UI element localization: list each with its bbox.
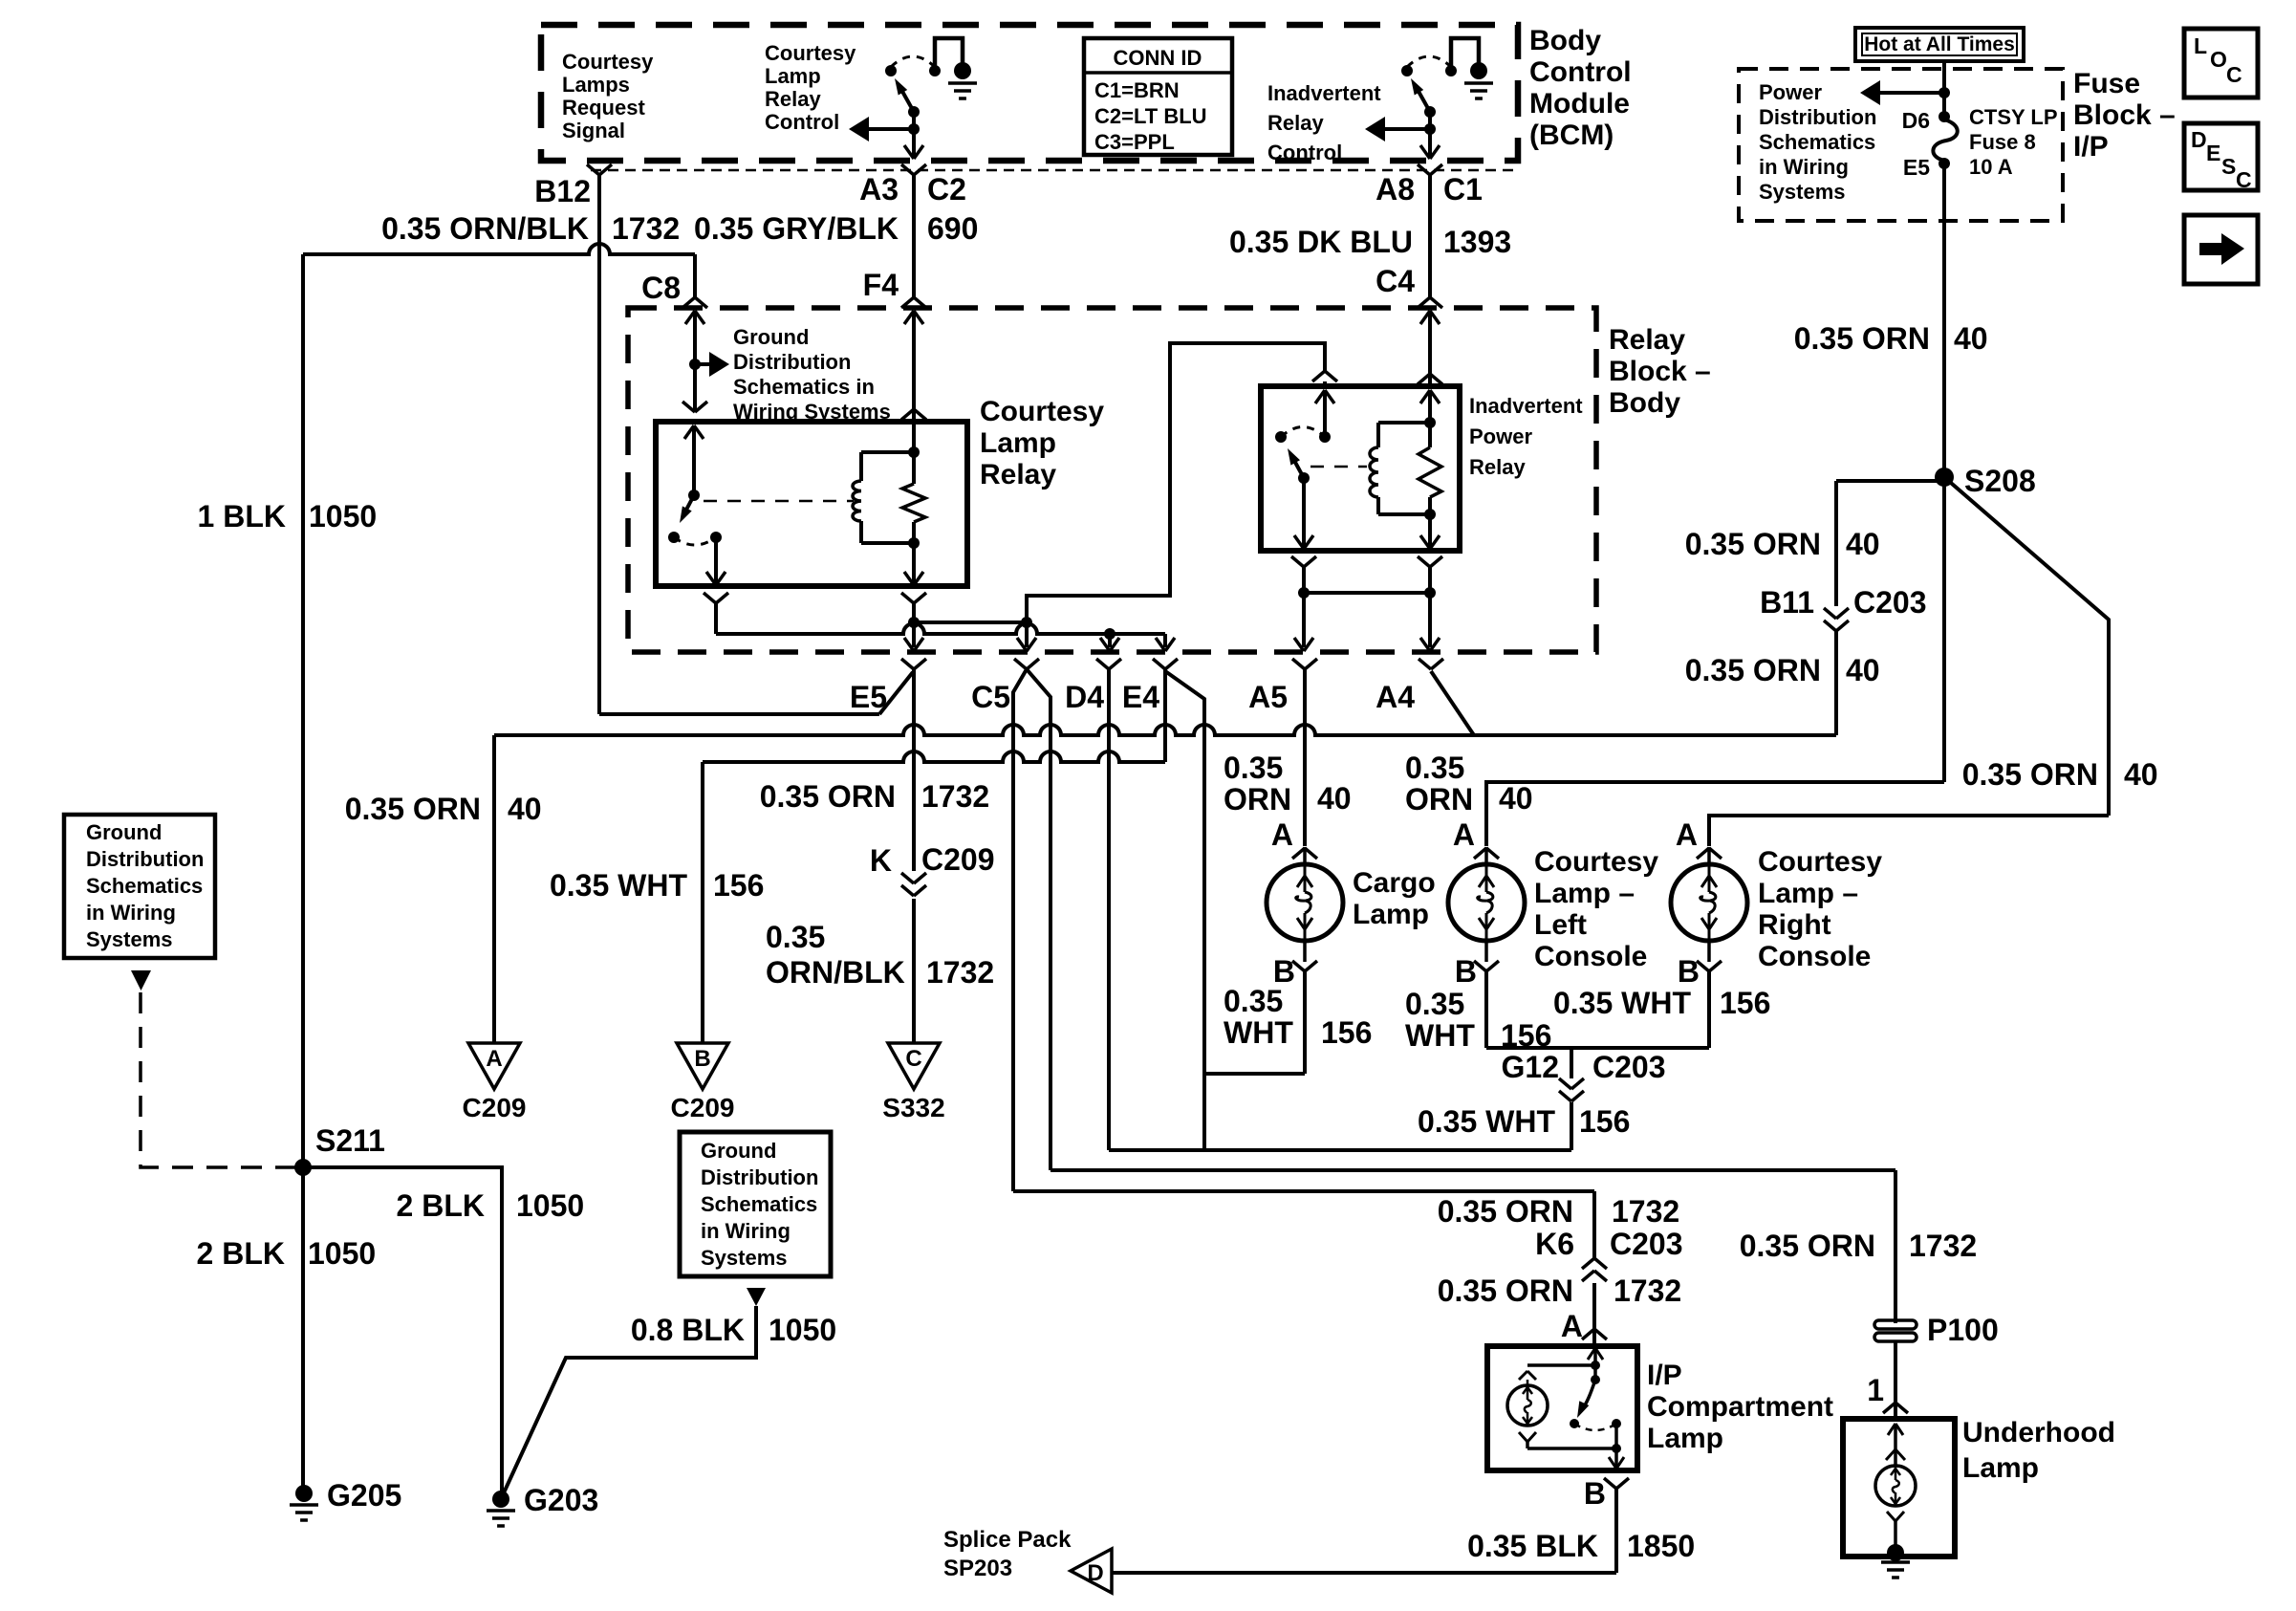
Underhood Lamp box xyxy=(1843,1419,1955,1557)
cargo lamp feed from A5 xyxy=(1303,669,1307,846)
wire label 0.35 ORN 40 (right console feed) xyxy=(1962,757,2158,792)
svg-text:Module: Module xyxy=(1529,88,1630,120)
Body Control Module (BCM) dashed box xyxy=(541,25,1518,161)
courtesy relay actuation dashed link xyxy=(704,500,854,503)
Underhood Lamp title xyxy=(1962,1417,2115,1484)
wire label 0.35 ORN/BLK 1732 xyxy=(381,211,680,246)
svg-text:Compartment: Compartment xyxy=(1647,1391,1833,1423)
svg-text:Power: Power xyxy=(1469,425,1532,448)
arrow under middle ground box xyxy=(747,1288,766,1306)
svg-text:A: A xyxy=(1561,1309,1583,1343)
svg-text:40: 40 xyxy=(1954,321,1988,356)
wire K6 to I/P lamp A xyxy=(1592,1283,1596,1346)
inadvertent relay coil xyxy=(1370,390,1440,520)
Body Control Module (BCM) title xyxy=(1529,25,1632,151)
svg-text:0.35: 0.35 xyxy=(1405,751,1464,785)
svg-text:B: B xyxy=(1678,954,1700,989)
svg-text:Inadvertent: Inadvertent xyxy=(1267,81,1381,105)
svg-text:Lamp: Lamp xyxy=(1647,1423,1723,1454)
svg-text:0.35: 0.35 xyxy=(1224,984,1283,1018)
svg-text:Right: Right xyxy=(1758,909,1831,941)
svg-text:1732: 1732 xyxy=(1612,1194,1679,1229)
svg-text:C5: C5 xyxy=(971,680,1010,714)
pin B (left console lamp) xyxy=(1455,954,1499,989)
wire A3/C2 to F4 xyxy=(912,175,916,297)
svg-text:Relay: Relay xyxy=(1267,111,1324,135)
svg-text:Schematics in: Schematics in xyxy=(733,375,875,399)
wire P100 to underhood lamp xyxy=(1894,1341,1897,1419)
underhood lamp ground xyxy=(1881,1544,1910,1578)
svg-text:40: 40 xyxy=(1846,653,1880,687)
wire to underhood lamp run xyxy=(1051,1170,1895,1323)
BCM label: Courtesy Lamp Relay Control xyxy=(765,41,856,134)
svg-text:Ground: Ground xyxy=(701,1139,776,1163)
svg-text:Courtesy: Courtesy xyxy=(562,50,654,74)
svg-text:Underhood: Underhood xyxy=(1962,1417,2115,1448)
courtesy lamp right console label xyxy=(1758,846,1882,972)
svg-text:Cargo: Cargo xyxy=(1353,867,1436,899)
svg-text:D6: D6 xyxy=(1902,108,1930,133)
svg-text:A: A xyxy=(486,1046,502,1072)
pin A8 xyxy=(1375,164,1442,207)
pin E4 (relay block) xyxy=(1122,659,1178,714)
svg-text:F4: F4 xyxy=(863,268,899,302)
svg-text:A: A xyxy=(1453,817,1475,852)
svg-text:156: 156 xyxy=(1720,986,1770,1020)
svg-text:A8: A8 xyxy=(1375,172,1415,207)
BCM connector face (thin dashed line) xyxy=(591,169,1520,172)
Hot at All Times box xyxy=(1855,28,2024,61)
wire S208 down to left console feed xyxy=(1942,477,1946,782)
BCM inadvertent relay control switch xyxy=(1365,38,1493,159)
svg-text:0.35 ORN: 0.35 ORN xyxy=(1962,757,2098,792)
svg-text:Fuse 8: Fuse 8 xyxy=(1969,130,2036,154)
svg-text:S: S xyxy=(2221,154,2236,179)
courtesy lamp left console label xyxy=(1534,846,1658,972)
wire label 0.35 WHT 156 (left console) xyxy=(1405,987,1551,1053)
svg-text:0.35 ORN: 0.35 ORN xyxy=(1740,1229,1875,1263)
svg-text:2 BLK: 2 BLK xyxy=(197,1236,285,1271)
svg-text:Splice Pack: Splice Pack xyxy=(943,1527,1072,1553)
svg-text:E4: E4 xyxy=(1122,680,1159,714)
switched output run to D4 and E4 xyxy=(716,623,1175,651)
svg-text:B: B xyxy=(694,1046,710,1072)
svg-text:A5: A5 xyxy=(1248,680,1288,714)
svg-text:Courtesy: Courtesy xyxy=(765,41,856,65)
wire label 0.35 ORN 40 (A C209) xyxy=(345,792,542,826)
svg-text:1732: 1732 xyxy=(1614,1274,1681,1308)
svg-text:CONN ID: CONN ID xyxy=(1114,46,1202,70)
Inadvertent Power Relay title xyxy=(1469,394,1583,479)
pin A5 (relay block) xyxy=(1248,659,1317,714)
svg-text:L: L xyxy=(2194,33,2207,58)
pin B12 xyxy=(534,164,612,208)
BCM label: Courtesy Lamps Request Signal xyxy=(562,50,654,142)
svg-text:C8: C8 xyxy=(641,271,681,305)
svg-text:Body: Body xyxy=(1609,387,1680,419)
svg-text:C3=PPL: C3=PPL xyxy=(1094,130,1175,154)
wire label 0.35 ORN 40 (left console feed) xyxy=(1405,751,1533,816)
svg-text:0.35 ORN: 0.35 ORN xyxy=(1438,1194,1573,1229)
svg-text:Block –: Block – xyxy=(2073,99,2176,131)
svg-text:2 BLK: 2 BLK xyxy=(397,1188,485,1223)
connector B C209 xyxy=(671,1043,735,1122)
pin C8 xyxy=(641,271,707,308)
svg-text:(BCM): (BCM) xyxy=(1529,120,1614,151)
relay block label: Ground Distribution Schematics in Wiring Systems xyxy=(733,325,891,424)
BCM label: Inadvertent Relay Control xyxy=(1267,81,1381,164)
svg-text:C2=LT BLU: C2=LT BLU xyxy=(1094,104,1207,128)
WHT 156 horizontal run xyxy=(1109,1148,1571,1152)
svg-text:D: D xyxy=(1087,1560,1103,1586)
svg-text:40: 40 xyxy=(508,792,542,826)
hop line B12 top xyxy=(303,244,695,297)
svg-text:1850: 1850 xyxy=(1627,1529,1695,1563)
svg-text:SP203: SP203 xyxy=(943,1556,1012,1581)
svg-text:Control: Control xyxy=(765,110,839,134)
cargo lamp B wire xyxy=(1204,971,1305,1074)
svg-text:10 A: 10 A xyxy=(1969,155,2013,179)
svg-text:Hot at All Times: Hot at All Times xyxy=(1864,33,2015,55)
svg-text:1732: 1732 xyxy=(921,779,989,814)
svg-text:G205: G205 xyxy=(327,1478,401,1513)
svg-text:G12: G12 xyxy=(1502,1050,1559,1084)
inadvertent relay dashed link xyxy=(1310,466,1367,468)
console B join and G12 xyxy=(1486,1048,1709,1078)
svg-text:S208: S208 xyxy=(1964,464,2036,498)
wire fuse E5 down to S208 xyxy=(1942,163,1946,477)
pin A (right console lamp) xyxy=(1676,817,1722,859)
svg-text:Ground: Ground xyxy=(733,325,809,349)
svg-text:0.35 ORN: 0.35 ORN xyxy=(1685,653,1821,687)
next-page arrow box xyxy=(2184,215,2258,284)
svg-text:C209: C209 xyxy=(463,1093,527,1122)
wire label 1 BLK 1050 xyxy=(198,499,378,533)
pin D4 (relay block) xyxy=(1065,659,1121,714)
wire S211 to G205 xyxy=(301,1167,305,1493)
svg-text:Signal: Signal xyxy=(562,119,625,142)
wire S208 diagonal to right column xyxy=(1944,477,2109,816)
LOC box xyxy=(2184,29,2258,98)
wire label 2 BLK 1050 (G203) xyxy=(397,1188,585,1223)
svg-text:B11: B11 xyxy=(1760,585,1814,620)
wire courtesy relay coil low side xyxy=(901,593,926,651)
svg-text:Courtesy: Courtesy xyxy=(980,396,1104,427)
wire courtesy relay switch out to D4/E4 run xyxy=(704,593,728,634)
svg-text:0.35 ORN: 0.35 ORN xyxy=(345,792,481,826)
I/P Compartment Lamp box xyxy=(1487,1346,1637,1470)
inadvertent relay switch xyxy=(1275,371,1337,551)
svg-text:Control: Control xyxy=(1529,56,1632,88)
svg-text:0.35 WHT: 0.35 WHT xyxy=(1553,986,1691,1020)
pin A (left console lamp) xyxy=(1453,817,1499,859)
BCM courtesy lamp relay control switch xyxy=(849,38,977,159)
wire D4 down to WHT junction xyxy=(1107,669,1111,1150)
wire label 0.35 BLK 1850 xyxy=(1467,1529,1695,1563)
svg-text:Power: Power xyxy=(1759,80,1822,104)
wire A4 diagonal join xyxy=(1431,671,1836,735)
wire A8/C1 to C4 xyxy=(1428,175,1432,297)
wire E4 diagonal branch down xyxy=(1165,671,1204,1150)
cargo lamp label xyxy=(1353,867,1436,930)
svg-text:C1: C1 xyxy=(1443,172,1483,207)
wire F4 into courtesy relay xyxy=(901,311,926,422)
svg-text:0.35 DK BLU: 0.35 DK BLU xyxy=(1229,225,1413,259)
CONN ID table xyxy=(1084,38,1232,155)
pin C4 xyxy=(1375,264,1442,308)
wire label 0.35 ORN 40 (below B11) xyxy=(1685,653,1880,687)
svg-text:WHT: WHT xyxy=(1224,1015,1293,1050)
grommet P100 xyxy=(1874,1313,1999,1347)
svg-text:Lamp: Lamp xyxy=(1353,899,1429,930)
svg-text:Schematics: Schematics xyxy=(86,874,203,898)
wire label 0.35 WHT 156 (right console) xyxy=(1553,986,1770,1020)
svg-text:Distribution: Distribution xyxy=(701,1165,818,1189)
wire label 2 BLK 1050 (G205) xyxy=(197,1236,377,1271)
svg-text:Lamp: Lamp xyxy=(1962,1452,2039,1484)
svg-text:1050: 1050 xyxy=(769,1313,836,1347)
svg-text:C: C xyxy=(2226,62,2242,87)
I/P Compartment Lamp title xyxy=(1647,1360,1833,1454)
svg-text:0.35 GRY/BLK: 0.35 GRY/BLK xyxy=(694,211,899,246)
wire to courtesy lamp left console A xyxy=(1486,782,1944,846)
wire G12 down to WHT run xyxy=(1570,1102,1573,1150)
wire from Hot at All Times to fuse xyxy=(1942,61,1946,117)
svg-text:1050: 1050 xyxy=(516,1188,584,1223)
arrow under left ground box xyxy=(131,970,151,991)
pin E5 (relay block) xyxy=(850,659,926,714)
svg-text:Courtesy: Courtesy xyxy=(1534,846,1658,878)
svg-text:0.35 WHT: 0.35 WHT xyxy=(550,868,687,903)
svg-text:CTSY LP: CTSY LP xyxy=(1969,105,2058,129)
svg-text:C4: C4 xyxy=(1375,264,1415,298)
svg-text:Control: Control xyxy=(1267,141,1342,164)
svg-text:in Wiring: in Wiring xyxy=(701,1219,791,1243)
left console B wire xyxy=(1484,971,1488,1048)
svg-text:C203: C203 xyxy=(1592,1050,1666,1084)
inadvertent relay outputs join xyxy=(1291,556,1442,651)
svg-text:Distribution: Distribution xyxy=(733,350,851,374)
svg-text:Left: Left xyxy=(1534,909,1587,941)
svg-text:1393: 1393 xyxy=(1443,225,1511,259)
ORN 40 horizontal run xyxy=(494,725,1474,735)
wire label 0.35 ORN 40 (cargo) xyxy=(1224,751,1352,816)
svg-text:Relay: Relay xyxy=(1609,324,1685,356)
svg-text:Lamp: Lamp xyxy=(980,427,1056,459)
arrow to power distribution xyxy=(1860,80,1950,105)
wire label 0.35 DK BLU 1393 xyxy=(1229,225,1511,259)
svg-text:40: 40 xyxy=(1846,527,1880,561)
I/P lamp B wire xyxy=(1112,1489,1616,1573)
pin F4 xyxy=(863,268,926,308)
svg-text:Relay: Relay xyxy=(980,459,1056,490)
svg-text:Fuse: Fuse xyxy=(2073,68,2140,99)
wire ground bus top xyxy=(301,254,305,1167)
svg-text:A: A xyxy=(1271,817,1293,852)
svg-text:A4: A4 xyxy=(1375,680,1415,714)
svg-text:40: 40 xyxy=(1499,781,1533,816)
wire C4 into inadvertent relay xyxy=(1418,311,1442,386)
svg-text:ORN: ORN xyxy=(1405,782,1473,816)
wire label 0.35 WHT 156 (cargo) xyxy=(1224,984,1372,1050)
wire label 0.35 ORN 1732 (underhood) xyxy=(1740,1229,1977,1263)
svg-text:0.8 BLK: 0.8 BLK xyxy=(631,1313,745,1347)
right console B wire xyxy=(1707,971,1711,1048)
svg-text:O: O xyxy=(2210,47,2227,72)
inadvertent relay resistor xyxy=(1419,423,1441,551)
Relay Block - Body dashed box xyxy=(628,308,1596,652)
Fuse Block - I/P title xyxy=(2073,68,2176,163)
splice S208 xyxy=(1935,464,2036,498)
svg-text:C203: C203 xyxy=(1610,1227,1683,1261)
svg-text:C1=BRN: C1=BRN xyxy=(1094,78,1180,102)
fuse CTSY LP Fuse 8 10A xyxy=(1902,105,2058,180)
svg-text:Block –: Block – xyxy=(1609,356,1711,387)
wire label 0.8 BLK 1050 xyxy=(631,1313,836,1347)
svg-text:0.35 ORN/BLK: 0.35 ORN/BLK xyxy=(381,211,589,246)
wire label 0.35 ORN 1732 (A) xyxy=(1438,1274,1681,1308)
svg-text:1732: 1732 xyxy=(1909,1229,1977,1263)
svg-text:Body: Body xyxy=(1529,25,1601,56)
Inadvertent Power Relay box xyxy=(1261,386,1460,551)
svg-text:1: 1 xyxy=(1867,1373,1884,1407)
wire label 0.35 ORN 1732 (E5) xyxy=(760,779,989,814)
dashed link to S211 xyxy=(141,992,295,1167)
DESC box xyxy=(2184,123,2258,192)
svg-text:0.35 ORN: 0.35 ORN xyxy=(760,779,896,814)
svg-text:C2: C2 xyxy=(927,172,966,207)
wire E4 to B C209 run xyxy=(703,669,1165,1043)
pin 1 (underhood lamp) xyxy=(1867,1373,1908,1413)
connector K C209 xyxy=(870,842,995,896)
connector K6 C203 xyxy=(1535,1227,1682,1281)
wire S208 left branch to B11 xyxy=(1836,481,1944,606)
pin A3 xyxy=(859,164,926,207)
svg-text:Console: Console xyxy=(1534,941,1647,972)
svg-text:Systems: Systems xyxy=(86,927,173,951)
I/P lamp bulb xyxy=(1507,1380,1616,1448)
wire to courtesy lamp right console A xyxy=(1709,816,2109,846)
svg-text:WHT: WHT xyxy=(1405,1018,1475,1053)
wire S211 to G203 xyxy=(303,1167,502,1499)
courtesy relay coil xyxy=(853,422,920,549)
svg-text:0.35 ORN: 0.35 ORN xyxy=(1438,1274,1573,1308)
svg-text:Ground: Ground xyxy=(86,820,162,844)
svg-text:0.35: 0.35 xyxy=(1224,751,1283,785)
svg-text:Lamp –: Lamp – xyxy=(1758,878,1858,909)
svg-text:1732: 1732 xyxy=(926,955,994,990)
svg-text:0.35 ORN: 0.35 ORN xyxy=(1794,321,1930,356)
svg-text:E: E xyxy=(2206,141,2220,165)
svg-text:I/P: I/P xyxy=(2073,131,2109,163)
svg-text:Lamp: Lamp xyxy=(765,64,821,88)
svg-text:156: 156 xyxy=(1321,1015,1372,1050)
ground G203 xyxy=(487,1483,598,1526)
wire C5 node up-over to inadvertent switch xyxy=(1027,343,1325,622)
fuse block label: Power Distribution Schematics in Wiring Systems xyxy=(1759,80,1876,204)
I/P lamp feed internals xyxy=(1519,1348,1603,1380)
svg-text:C: C xyxy=(905,1046,921,1072)
svg-text:P100: P100 xyxy=(1927,1313,1999,1347)
Ground Distribution Schematics box (middle) xyxy=(680,1132,831,1276)
pin B (right console lamp) xyxy=(1678,954,1722,989)
pin B (I/P lamp) xyxy=(1584,1476,1629,1511)
svg-text:B: B xyxy=(1584,1476,1606,1511)
pin C5 (relay block) xyxy=(971,659,1039,714)
svg-text:0.35: 0.35 xyxy=(1405,987,1464,1021)
svg-text:in Wiring: in Wiring xyxy=(86,901,176,925)
svg-text:G203: G203 xyxy=(524,1483,598,1517)
pin B (cargo lamp) xyxy=(1273,954,1317,989)
cargo lamp xyxy=(1267,847,1343,962)
wire label 0.35 ORN 40 (below fuse) xyxy=(1794,321,1988,356)
svg-text:Schematics: Schematics xyxy=(701,1192,817,1216)
svg-text:0.35: 0.35 xyxy=(766,920,825,954)
pin A4 (relay block) xyxy=(1375,659,1443,714)
svg-text:Schematics: Schematics xyxy=(1759,130,1875,154)
Ground Distribution Schematics box (left) xyxy=(64,815,215,958)
splice pack SP203 connector D xyxy=(943,1527,1112,1593)
svg-text:0.35 WHT: 0.35 WHT xyxy=(1418,1104,1555,1139)
wire E5 down to K C209 xyxy=(912,669,916,871)
svg-text:K: K xyxy=(870,843,892,878)
svg-text:Request: Request xyxy=(562,96,645,120)
wire B12 to relay area (vertical) xyxy=(597,175,601,714)
Fuse Block - I/P dashed box xyxy=(1739,69,2063,221)
Courtesy Lamp Relay box xyxy=(656,422,967,586)
wire B12 run to E5 xyxy=(599,672,913,714)
svg-text:40: 40 xyxy=(2124,757,2158,792)
courtesy lamp right console xyxy=(1671,847,1747,962)
courtesy lamp left console xyxy=(1448,847,1525,962)
svg-text:S211: S211 xyxy=(315,1123,385,1158)
wire label 0.35 WHT 156 (B C209) xyxy=(550,868,764,903)
connector G12 C203 xyxy=(1502,1050,1666,1101)
wire to K6 C203 run xyxy=(1013,1191,1594,1258)
pin A (cargo lamp) xyxy=(1271,817,1317,859)
svg-text:Console: Console xyxy=(1758,941,1871,972)
wire E5 Y to A C209 run xyxy=(492,735,496,1043)
wire label 0.35 ORN 40 (above B11) xyxy=(1685,527,1880,561)
svg-text:1 BLK: 1 BLK xyxy=(198,499,286,533)
courtesy relay resistor xyxy=(902,452,925,586)
svg-text:D4: D4 xyxy=(1065,680,1104,714)
Relay Block - Body title xyxy=(1609,324,1711,419)
wire C5 split diagonals xyxy=(1013,669,1051,1191)
connector A C209 xyxy=(463,1043,527,1122)
pin A (I/P lamp) xyxy=(1561,1309,1607,1343)
connector B11 C203 xyxy=(1760,585,1926,631)
courtesy relay switch xyxy=(668,425,726,586)
svg-text:1732: 1732 xyxy=(612,211,680,246)
svg-text:C209: C209 xyxy=(921,842,995,877)
svg-text:Systems: Systems xyxy=(1759,180,1846,204)
svg-text:C: C xyxy=(2236,167,2252,192)
pin C1 xyxy=(1443,172,1483,207)
svg-text:C209: C209 xyxy=(671,1093,735,1122)
svg-text:B12: B12 xyxy=(534,174,591,208)
svg-text:ORN: ORN xyxy=(1224,782,1291,816)
relay block ground distribution stub (C8) xyxy=(682,311,729,412)
svg-text:A: A xyxy=(1676,817,1698,852)
svg-text:Distribution: Distribution xyxy=(86,847,204,871)
svg-text:0.35 BLK: 0.35 BLK xyxy=(1467,1529,1598,1563)
svg-text:1050: 1050 xyxy=(308,1236,376,1271)
svg-text:ORN/BLK: ORN/BLK xyxy=(766,955,905,990)
svg-text:0.35 ORN: 0.35 ORN xyxy=(1685,527,1821,561)
svg-text:Inadvertent: Inadvertent xyxy=(1469,394,1583,418)
svg-text:K6: K6 xyxy=(1535,1227,1574,1261)
